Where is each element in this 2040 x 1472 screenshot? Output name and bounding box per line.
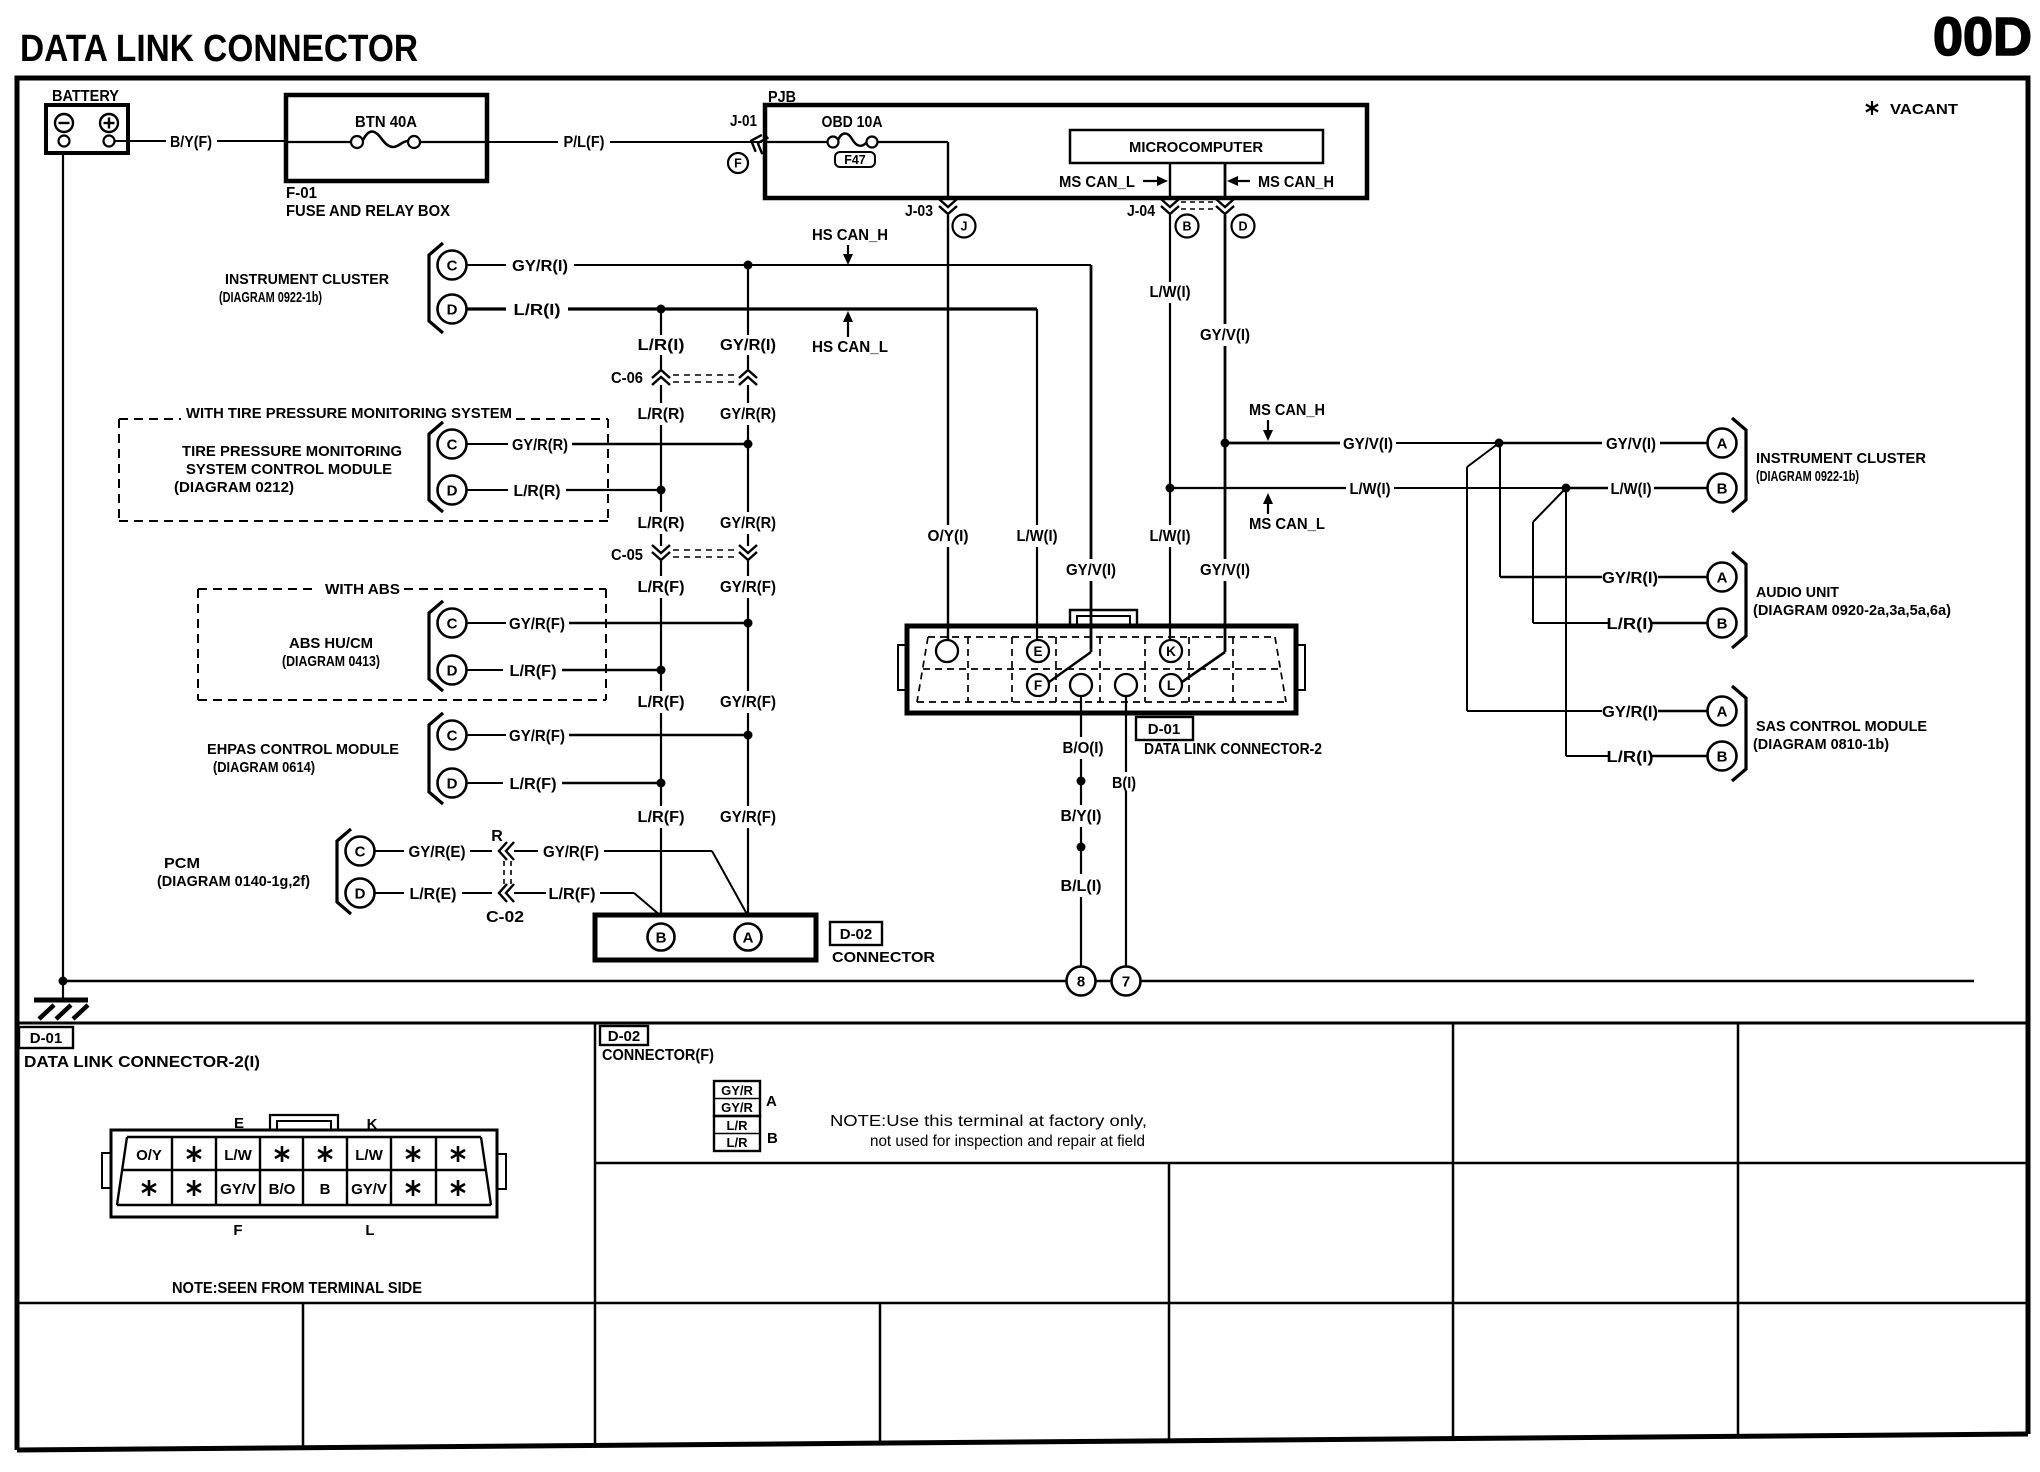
svg-text:B/Y(F): B/Y(F) bbox=[170, 134, 212, 151]
svg-text:L/R(R): L/R(R) bbox=[514, 483, 561, 500]
svg-text:8: 8 bbox=[1077, 974, 1085, 991]
svg-text:D-01: D-01 bbox=[1148, 721, 1181, 738]
svg-text:L/R(I): L/R(I) bbox=[1607, 616, 1654, 633]
wire GY/R(E) to C-02 bbox=[470, 850, 492, 852]
wire audio L/R seg bbox=[1533, 622, 1609, 624]
svg-text:(DIAGRAM 0413): (DIAGRAM 0413) bbox=[282, 653, 380, 670]
svg-text:D: D bbox=[355, 886, 366, 903]
svg-text:L/R(F): L/R(F) bbox=[510, 776, 557, 793]
wire L/W(I) to branch bbox=[1169, 303, 1171, 525]
svg-text:NOTE:SEEN FROM TERMINAL SIDE: NOTE:SEEN FROM TERMINAL SIDE bbox=[172, 1280, 422, 1297]
svg-text:O/Y(I): O/Y(I) bbox=[928, 528, 969, 545]
svg-text:DATA LINK CONNECTOR-2(I): DATA LINK CONNECTOR-2(I) bbox=[24, 1054, 260, 1071]
terminal ABS D bbox=[438, 656, 467, 685]
svg-text:TIRE PRESSURE MONITORING: TIRE PRESSURE MONITORING bbox=[182, 443, 402, 460]
wire GY/R(F) seg2 bbox=[747, 598, 749, 623]
svg-text:L/W: L/W bbox=[355, 1147, 383, 1164]
terminal EHPAS C bbox=[438, 721, 467, 750]
connector ref J-03 pin J bbox=[953, 215, 976, 238]
label D-02 bbox=[830, 922, 882, 945]
svg-text:C: C bbox=[447, 258, 458, 275]
wire OBD fuse down to J-03 bbox=[947, 142, 949, 199]
junction GY/R(F) junction EHPAS bbox=[744, 731, 753, 740]
svg-text:J-04: J-04 bbox=[1127, 203, 1155, 220]
wire L/W(I) label to DLC-2 pin K bbox=[1169, 547, 1171, 640]
terminal D-02 pin B bbox=[648, 924, 675, 951]
wire audio GY/R seg bbox=[1500, 576, 1602, 579]
terminal cluster right B bbox=[1708, 474, 1737, 503]
connector chevron C-05 right bbox=[739, 545, 757, 560]
D-01 pin diagram outer bbox=[111, 1130, 497, 1217]
svg-text:GY/V(I): GY/V(I) bbox=[1606, 436, 1656, 453]
wire GY/R(F) diagonal to D-02 A bbox=[712, 851, 748, 916]
svg-text:L/R(F): L/R(F) bbox=[638, 579, 685, 596]
svg-text:MICROCOMPUTER: MICROCOMPUTER bbox=[1129, 139, 1263, 156]
wire O/Y(I) label to DLC-2 bbox=[947, 547, 949, 640]
svg-text:(DIAGRAM 0810-1b): (DIAGRAM 0810-1b) bbox=[1753, 736, 1889, 753]
wire GY/V(I) branch seg3 bbox=[1499, 442, 1602, 445]
svg-text:L/W(I): L/W(I) bbox=[1150, 284, 1191, 301]
svg-text:NOTE:Use this terminal at fact: NOTE:Use this terminal at factory only, bbox=[830, 1113, 1147, 1130]
svg-text:PCM: PCM bbox=[164, 855, 200, 872]
symbol asterisk pin row2 x194 bbox=[187, 1180, 201, 1196]
wire J-03 to O/Y(I) label bbox=[947, 215, 949, 525]
svg-text:(DIAGRAM 0614): (DIAGRAM 0614) bbox=[213, 759, 315, 776]
symbol asterisk pin row1 x194 bbox=[187, 1146, 201, 1162]
svg-text:OBD 10A: OBD 10A bbox=[822, 114, 883, 131]
junction L/R(I) branch bbox=[657, 305, 666, 314]
svg-text:GY/R: GY/R bbox=[721, 1083, 753, 1098]
wire GY/V(I) to branch bbox=[1224, 346, 1227, 559]
connector D-01 DLC-2 box bbox=[907, 626, 1296, 713]
svg-text:B: B bbox=[320, 1181, 331, 1198]
svg-text:GY/R(R): GY/R(R) bbox=[720, 406, 776, 423]
arrow MS CAN_L right bbox=[1267, 500, 1269, 514]
wire battery to B/Y(F) label bbox=[115, 140, 167, 142]
wire cluster C to label bbox=[467, 264, 507, 266]
svg-text:C: C bbox=[447, 437, 458, 454]
junction GY/R(I) branch bbox=[744, 261, 753, 270]
svg-text:J: J bbox=[961, 220, 968, 234]
svg-text:GY/V: GY/V bbox=[220, 1181, 256, 1198]
svg-text:GY/R(F): GY/R(F) bbox=[543, 844, 599, 861]
junction L/R(F) junction ABS bbox=[657, 666, 666, 675]
svg-text:L/R(F): L/R(F) bbox=[638, 694, 685, 711]
svg-text:P/L(F): P/L(F) bbox=[564, 134, 605, 151]
connector chevron J-01 bbox=[748, 132, 768, 154]
svg-text:L/R: L/R bbox=[727, 1135, 749, 1150]
wire L/R(F) diagonal to D-02 B bbox=[634, 893, 661, 916]
svg-text:(DIAGRAM 0212): (DIAGRAM 0212) bbox=[174, 479, 294, 496]
svg-text:J-01: J-01 bbox=[730, 113, 757, 130]
wire battery negative to ground bus bbox=[62, 153, 64, 1000]
PJB box bbox=[765, 105, 1367, 198]
wire L/R vertical seg2 bbox=[660, 355, 662, 369]
svg-text:VACANT: VACANT bbox=[1890, 101, 1958, 118]
svg-text:GY/R(I): GY/R(I) bbox=[720, 337, 776, 354]
wire GY/R vertical seg2 bbox=[747, 355, 749, 369]
junction GY/R(R) junction bbox=[744, 440, 753, 449]
connector bracket instrument cluster right bbox=[1732, 418, 1746, 512]
terminal ground pin 7 bbox=[1112, 967, 1141, 996]
wire GY/R(R) seg2 bbox=[747, 425, 749, 444]
terminal instrument cluster D bbox=[438, 295, 467, 324]
TPMS dashed box bbox=[119, 419, 608, 521]
terminal audio B bbox=[1708, 609, 1737, 638]
svg-text:7: 7 bbox=[1122, 974, 1130, 991]
D-01 pin grid bbox=[117, 1137, 491, 1205]
junction ground junction bbox=[59, 977, 68, 986]
connector D-02 box bbox=[595, 915, 816, 960]
wire J-04 B down bbox=[1169, 215, 1171, 282]
wire B(I) wire to pin 7 bbox=[1125, 696, 1127, 967]
wire GY/R(F) run PCM bbox=[604, 850, 712, 852]
wire cluster D to label bbox=[467, 307, 507, 310]
terminal ground pin 8 bbox=[1067, 967, 1096, 996]
svg-text:MS CAN_H: MS CAN_H bbox=[1258, 174, 1334, 191]
fuse BTN 40A bbox=[286, 132, 487, 149]
connector bracket TPMS bbox=[429, 422, 443, 512]
svg-text:SAS CONTROL MODULE: SAS CONTROL MODULE bbox=[1756, 718, 1927, 735]
junction B/O-B/Y junction bbox=[1077, 777, 1086, 786]
svg-text:FUSE AND RELAY BOX: FUSE AND RELAY BOX bbox=[286, 203, 450, 220]
svg-text:B(I): B(I) bbox=[1112, 775, 1136, 792]
svg-text:B: B bbox=[1182, 220, 1191, 234]
svg-text:J-03: J-03 bbox=[905, 203, 933, 220]
wire GY/V into pin F diagonal bbox=[1049, 652, 1091, 682]
wire GY/R(F) seg1 bbox=[747, 561, 749, 576]
svg-text:WITH ABS: WITH ABS bbox=[325, 581, 400, 598]
wire L/R(F) run PCM bbox=[600, 892, 634, 894]
wire L/R vertical seg1 bbox=[660, 309, 662, 335]
connector chevron C-05 left bbox=[652, 545, 670, 560]
wire ground bus bbox=[63, 980, 1974, 983]
wire L/W(I) branch seg1 bbox=[1170, 487, 1346, 489]
connector chevron C-06 right bbox=[739, 370, 757, 385]
svg-text:B: B bbox=[767, 1130, 778, 1147]
svg-text:GY/R(E): GY/R(E) bbox=[409, 844, 466, 861]
wire GY/R vertical seg1 bbox=[747, 265, 749, 335]
table grid bbox=[17, 1023, 2028, 1450]
svg-text:SYSTEM CONTROL MODULE: SYSTEM CONTROL MODULE bbox=[186, 461, 392, 478]
wire L/R(R) run bbox=[566, 489, 661, 491]
wire P/L(F) label to PJB bbox=[610, 141, 762, 143]
connector bracket PCM bbox=[337, 829, 351, 914]
wire GY/R(F) seg4 bbox=[747, 713, 749, 735]
svg-text:L/R(I): L/R(I) bbox=[514, 302, 561, 319]
svg-text:ABS HU/CM: ABS HU/CM bbox=[289, 635, 373, 652]
svg-text:K: K bbox=[367, 1116, 378, 1133]
junction GY/V branch split bbox=[1495, 439, 1504, 448]
connector C-06 dashed link bbox=[673, 374, 736, 376]
connector C-02 dashed link bbox=[503, 861, 505, 884]
svg-text:B: B bbox=[1717, 749, 1728, 766]
svg-text:L/R(I): L/R(I) bbox=[638, 337, 685, 354]
svg-text:not used for inspection and re: not used for inspection and repair at fi… bbox=[870, 1133, 1145, 1150]
svg-text:C-06: C-06 bbox=[611, 370, 643, 387]
svg-text:O/Y: O/Y bbox=[136, 1147, 162, 1164]
svg-text:GY/R(F): GY/R(F) bbox=[509, 616, 565, 633]
svg-text:L/R(F): L/R(F) bbox=[638, 809, 685, 826]
svg-text:DATA LINK CONNECTOR: DATA LINK CONNECTOR bbox=[20, 28, 418, 70]
svg-text:C: C bbox=[355, 844, 366, 861]
junction L/W branch split bbox=[1562, 484, 1571, 493]
DLC-2 side tabs bbox=[898, 645, 907, 690]
wire EHPAS C to label bbox=[467, 734, 507, 736]
junction L/R(R) junction bbox=[657, 486, 666, 495]
svg-text:HS CAN_H: HS CAN_H bbox=[812, 227, 888, 244]
terminal EHPAS D bbox=[438, 769, 467, 798]
wire GY/R(I) corner down bbox=[1090, 265, 1093, 559]
label B(I) backing bbox=[1106, 772, 1140, 791]
wire MS CAN_H drop to SAS diagonal bbox=[1467, 443, 1499, 467]
svg-text:C-02: C-02 bbox=[486, 909, 524, 926]
wire C-02 to GY/R(F) label bbox=[514, 850, 538, 852]
svg-text:L/W: L/W bbox=[224, 1147, 252, 1164]
svg-text:L/R(R): L/R(R) bbox=[638, 515, 685, 532]
svg-text:E: E bbox=[1033, 644, 1042, 659]
svg-text:A: A bbox=[766, 1093, 777, 1110]
wire PCM D to label bbox=[375, 892, 405, 894]
wire GY/R(R) seg4 bbox=[747, 534, 749, 546]
wire GY/V(I) label into DLC-2 bbox=[1224, 581, 1227, 652]
wire L/R(F) seg2 bbox=[660, 598, 662, 670]
terminal PCM C bbox=[346, 837, 375, 866]
connector C-05 dashed link bbox=[673, 549, 736, 551]
label D-01 bbox=[1136, 717, 1193, 740]
svg-text:GY/R(I): GY/R(I) bbox=[512, 258, 568, 275]
connector bracket SAS module bbox=[1732, 686, 1746, 781]
svg-text:A: A bbox=[1717, 570, 1728, 587]
wire MS CAN_H drop to audio bbox=[1499, 443, 1501, 577]
junction B/Y-B/L junction bbox=[1077, 843, 1086, 852]
pin DLC-2 vacant pin bbox=[936, 640, 958, 662]
svg-text:B: B bbox=[1717, 616, 1728, 633]
svg-text:L: L bbox=[1167, 678, 1175, 693]
terminal SAS B bbox=[1708, 742, 1737, 771]
symbol asterisk pin row2 x413 bbox=[406, 1180, 420, 1196]
svg-text:F47: F47 bbox=[844, 153, 866, 167]
arrow HS CAN_H bbox=[847, 245, 849, 258]
microcomputer bbox=[1070, 130, 1323, 163]
fuse and relay box F-01 bbox=[286, 95, 487, 181]
svg-text:BATTERY: BATTERY bbox=[52, 88, 119, 105]
svg-text:L/R(F): L/R(F) bbox=[549, 886, 596, 903]
svg-text:A: A bbox=[743, 930, 754, 947]
wire SAS L/R seg bbox=[1566, 755, 1609, 757]
svg-text:CONNECTOR: CONNECTOR bbox=[832, 949, 935, 966]
svg-text:L/W(I): L/W(I) bbox=[1017, 528, 1058, 545]
D-02 terminal table bbox=[714, 1081, 760, 1151]
wire B/Y(I) seg bbox=[1080, 827, 1082, 874]
svg-text:GY/R(F): GY/R(F) bbox=[720, 579, 776, 596]
svg-text:D-01: D-01 bbox=[30, 1030, 63, 1047]
svg-text:PJB: PJB bbox=[768, 89, 796, 106]
svg-text:BTN 40A: BTN 40A bbox=[355, 114, 417, 131]
pin DLC-2 pin E bbox=[1027, 640, 1049, 662]
wire audio L/R to B bbox=[1651, 622, 1707, 625]
label D-01 cell bbox=[19, 1027, 73, 1048]
wire EHPAS D to label bbox=[467, 782, 504, 784]
svg-text:L/R: L/R bbox=[727, 1118, 749, 1133]
svg-text:GY/V(I): GY/V(I) bbox=[1343, 436, 1393, 453]
svg-text:D: D bbox=[447, 483, 458, 500]
label D-02 cell bbox=[600, 1026, 648, 1045]
wire GY/R(R) run bbox=[572, 443, 748, 446]
wire L/R(F) run ABS bbox=[562, 669, 661, 672]
svg-text:GY/R(F): GY/R(F) bbox=[720, 809, 776, 826]
svg-text:GY/R(I): GY/R(I) bbox=[1602, 704, 1658, 721]
arrow MS CAN_L bbox=[1143, 180, 1160, 182]
wire PCM C to label bbox=[375, 850, 405, 852]
wire GY/V(I) into DLC-2 bbox=[1090, 581, 1093, 652]
wire L/R(R) seg1 bbox=[660, 385, 662, 403]
svg-text:D-02: D-02 bbox=[840, 926, 873, 943]
connector chevron J-04 right bbox=[1216, 199, 1234, 214]
svg-text:F-01: F-01 bbox=[286, 185, 317, 202]
svg-text:EHPAS CONTROL MODULE: EHPAS CONTROL MODULE bbox=[207, 741, 399, 758]
svg-text:B: B bbox=[1717, 481, 1728, 498]
symbol asterisk pin row2 x149 bbox=[142, 1180, 156, 1196]
svg-text:GY/R(F): GY/R(F) bbox=[720, 694, 776, 711]
wire L/W(I) branch seg3 bbox=[1566, 487, 1608, 490]
svg-text:L/R(I): L/R(I) bbox=[1607, 749, 1654, 766]
wire L/R(I) run bbox=[568, 307, 1037, 310]
terminal instrument cluster C bbox=[438, 251, 467, 280]
svg-text:D: D bbox=[447, 302, 458, 319]
svg-text:B/Y(I): B/Y(I) bbox=[1061, 808, 1102, 825]
wire SAS GY/R seg bbox=[1467, 710, 1602, 712]
svg-text:A: A bbox=[1717, 704, 1728, 721]
svg-text:L: L bbox=[365, 1222, 374, 1239]
pin DLC-2 pin B/O bbox=[1070, 674, 1092, 696]
terminal TPMS D bbox=[438, 476, 467, 505]
wire microcomputer MS CAN_H down bbox=[1224, 163, 1227, 199]
svg-text:F: F bbox=[734, 157, 742, 171]
wire L/R(E) to C-02 bbox=[462, 892, 492, 894]
wire L/R(R) seg4 bbox=[660, 534, 662, 546]
svg-text:L/R(R): L/R(R) bbox=[638, 406, 685, 423]
wire L/R(F) run EHPAS bbox=[562, 782, 661, 785]
DLC-2 inner dashed grid bbox=[917, 637, 1286, 702]
svg-text:WITH TIRE PRESSURE MONITORING: WITH TIRE PRESSURE MONITORING SYSTEM bbox=[186, 405, 512, 422]
wire J-04 D down bbox=[1224, 215, 1227, 324]
symbol asterisk pin row1 x458 bbox=[451, 1146, 465, 1162]
svg-text:GY/R: GY/R bbox=[721, 1100, 753, 1115]
wire ABS D to label bbox=[467, 669, 504, 671]
ground symbol bbox=[34, 1000, 88, 1019]
wire L/R(R) seg2 bbox=[660, 425, 662, 490]
connector chevron J-03 bbox=[939, 199, 957, 214]
wire MS CAN_L drop to SAS bbox=[1565, 488, 1567, 756]
terminal cluster right A bbox=[1708, 429, 1737, 458]
terminal TPMS C bbox=[438, 430, 467, 459]
junction L/R(F) junction EHPAS bbox=[657, 779, 666, 788]
wire audio GY/R to A bbox=[1658, 576, 1707, 579]
wire L/R(I) corner down bbox=[1036, 309, 1038, 525]
svg-text:D: D bbox=[1238, 220, 1247, 234]
terminal SAS A bbox=[1708, 697, 1737, 726]
arrow HS CAN_L bbox=[847, 318, 849, 337]
wire GY/V(I) branch seg2 bbox=[1396, 442, 1499, 444]
svg-text:HS CAN_L: HS CAN_L bbox=[812, 339, 888, 356]
label F47 bbox=[835, 152, 875, 167]
arrow MS CAN_H right bbox=[1267, 420, 1269, 434]
symbol asterisk vacant legend bbox=[1866, 101, 1878, 115]
svg-text:C: C bbox=[447, 616, 458, 633]
svg-text:K: K bbox=[1166, 644, 1176, 659]
symbol asterisk pin row1 x282 bbox=[275, 1146, 289, 1162]
symbol asterisk pin row1 x325 bbox=[318, 1146, 332, 1162]
svg-text:D: D bbox=[447, 776, 458, 793]
wire B/L(I) seg to pin 8 bbox=[1080, 897, 1082, 967]
wire GY/V into pin L diagonal bbox=[1182, 652, 1225, 682]
wire GY/V(I) to cluster A bbox=[1660, 442, 1707, 445]
wire L/R(F) seg4 bbox=[660, 713, 662, 783]
wire C-02 to L/R(F) label bbox=[514, 892, 546, 894]
connector bracket EHPAS bbox=[429, 713, 443, 804]
fuse OBD 10A bbox=[765, 134, 948, 148]
terminal PCM D bbox=[346, 879, 375, 908]
svg-text:GY/V: GY/V bbox=[351, 1181, 387, 1198]
wire GY/R(I) run bbox=[574, 264, 1091, 266]
junction MS CAN_L branch bbox=[1166, 484, 1175, 493]
connector chevron C-06 left bbox=[652, 370, 670, 385]
svg-text:DATA LINK CONNECTOR-2: DATA LINK CONNECTOR-2 bbox=[1144, 741, 1322, 758]
symbol asterisk pin row1 x413 bbox=[406, 1146, 420, 1162]
connector ref J-01 pin F bbox=[728, 153, 748, 173]
pin DLC-2 pin B bbox=[1115, 674, 1137, 696]
svg-text:00D: 00D bbox=[1933, 7, 2032, 67]
wire SAS GY/R to A bbox=[1658, 710, 1707, 713]
svg-text:GY/V(I): GY/V(I) bbox=[1066, 562, 1116, 579]
wire L/W(I) branch seg2 bbox=[1394, 487, 1566, 489]
svg-text:L/W(I): L/W(I) bbox=[1611, 481, 1652, 498]
connector bracket audio unit bbox=[1732, 552, 1746, 648]
svg-text:CONNECTOR(F): CONNECTOR(F) bbox=[602, 1047, 714, 1064]
wire L/R(F) seg6 to D-02 bbox=[660, 828, 662, 916]
wire GY/V(I) branch seg1 bbox=[1225, 442, 1340, 445]
pin DLC-2 pin L bbox=[1160, 674, 1182, 696]
svg-text:D-02: D-02 bbox=[608, 1028, 641, 1045]
svg-text:GY/V(I): GY/V(I) bbox=[1200, 562, 1250, 579]
wire microcomputer MS CAN_L down bbox=[1169, 163, 1171, 199]
terminal ABS C bbox=[438, 609, 467, 638]
svg-text:R: R bbox=[491, 828, 503, 845]
svg-text:B/O: B/O bbox=[269, 1181, 296, 1198]
svg-text:B/O(I): B/O(I) bbox=[1063, 740, 1104, 757]
svg-text:C-05: C-05 bbox=[611, 547, 643, 564]
wire fuse box to P/L(F) label bbox=[487, 141, 558, 143]
svg-text:C: C bbox=[447, 728, 458, 745]
arrow MS CAN_H bbox=[1233, 180, 1250, 182]
svg-text:GY/V(I): GY/V(I) bbox=[1200, 327, 1250, 344]
svg-text:GY/R(I): GY/R(I) bbox=[1602, 570, 1658, 587]
wire B/O(I) seg2 bbox=[1080, 759, 1082, 805]
wire GY/R(F) seg6 to D-02 bbox=[747, 828, 749, 916]
wire B/Y(F) label to fuse box bbox=[217, 140, 286, 142]
svg-text:(DIAGRAM 0920-2a,3a,5a,6a): (DIAGRAM 0920-2a,3a,5a,6a) bbox=[1753, 602, 1951, 619]
svg-text:L/W(I): L/W(I) bbox=[1150, 528, 1191, 545]
wire L/W(I) to cluster B bbox=[1654, 487, 1707, 490]
wire SAS L/R to B bbox=[1651, 755, 1707, 758]
svg-text:E: E bbox=[234, 1115, 244, 1132]
svg-text:L/R(F): L/R(F) bbox=[510, 663, 557, 680]
DLC-2 top tab bbox=[1070, 610, 1137, 624]
wire L/R(F) seg5 bbox=[660, 783, 662, 806]
svg-text:GY/R(R): GY/R(R) bbox=[720, 515, 776, 532]
svg-text:MS CAN_H: MS CAN_H bbox=[1249, 402, 1325, 419]
